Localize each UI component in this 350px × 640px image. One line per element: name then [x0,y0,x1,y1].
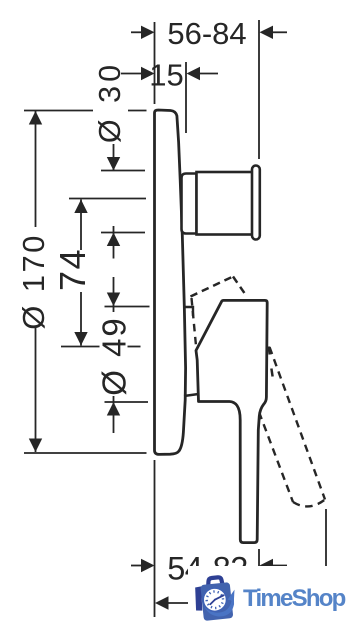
TimeShop watermark white backing [188,566,350,633]
bag body [200,582,233,621]
svg-text:TimeShop: TimeShop [243,585,346,612]
dashed handle: lever right side [270,347,326,500]
handle flange step [184,307,193,316]
dashed handle: lever left side [259,412,293,502]
clock face [202,587,227,612]
svg-text:56-84: 56-84 [167,16,246,51]
wall extension line bottom [154,460,156,617]
knob cylinder (diverter Ø30) [197,172,253,235]
dashed handle: lever end cap [293,500,325,507]
knob neck [182,174,197,234]
dimension 15 [121,58,218,134]
handle flange bottom [184,394,199,396]
dimension 74 [52,200,141,347]
TimeShop logo bag icon [193,576,238,622]
svg-text:Ø 170: Ø 170 [16,233,51,329]
dimension Ø 49 [96,277,150,433]
escutcheon plate (side view) [155,110,186,454]
knob axis centerline [69,198,146,200]
svg-text:Ø 49: Ø 49 [96,316,133,396]
dashed handle: rotated body edge stubs at solid edge [269,347,270,355]
bottom dimension second line (mostly hidden by logo) [155,509,326,610]
svg-text:74: 74 [52,248,93,291]
svg-text:15: 15 [149,58,183,93]
dashed handle: body bottom edge rotated [191,277,234,297]
bag left gusset flap [194,586,204,611]
bottom dimension 54-82 [131,549,287,587]
swoosh arrow [203,594,236,618]
dashed handle alternate position: flange edge [192,298,197,351]
handle body + lever [196,300,267,542]
dimension 56-84 [131,16,287,159]
dimension Ø 30 [93,61,145,259]
knob end cap [252,166,260,240]
bag handle [207,577,222,586]
dashed handle: body upper edge rotated [233,277,247,297]
dimension Ø 170 [16,111,147,454]
